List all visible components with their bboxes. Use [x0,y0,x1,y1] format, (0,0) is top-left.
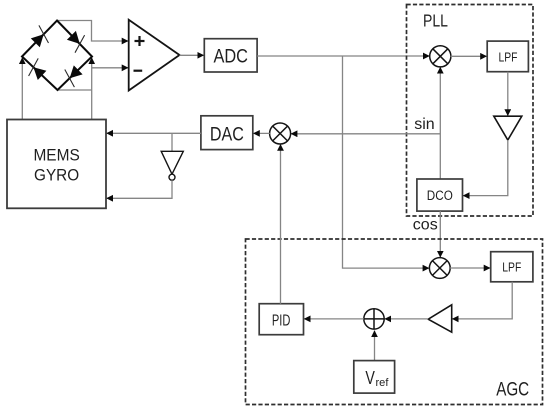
inverter bubble [169,174,175,180]
wire bottom vertex to right [58,89,92,91]
svg-text:cos: cos [413,217,438,234]
svg-text:PID: PID [272,313,291,330]
LPF block PLL [487,41,528,72]
wire DAC to MEMS GYRO top input [107,132,201,134]
multiplier DAC [270,123,291,144]
wire PID up to DAC multiplier [280,144,282,303]
svg-text:V: V [365,368,375,388]
bridge arrow bottom-left [29,58,47,80]
svg-text:ref: ref [376,377,390,389]
wire adder to PID [304,318,364,320]
MEMS GYRO block [7,120,106,209]
wire inverter to MEMS GYRO bottom input [107,180,173,198]
wire AGC LPF down to buffer [452,282,512,319]
wire DAC multiplier output to DAC [253,132,269,134]
wire AGC multiplier to LPF [450,267,490,269]
wire right vertex branch to op-amp minus input [92,67,129,69]
svg-text:MEMS: MEMS [33,146,79,164]
wire op-amp output to ADC [180,54,204,56]
MEMS capacitive bridge diamond [22,21,92,91]
svg-text:LPF: LPF [499,50,518,65]
buffer triangle AGC (points left) [428,305,452,332]
DCO block [417,179,463,211]
op-amp minus sign [134,70,143,72]
svg-text:sin: sin [414,116,434,133]
wire buffer to DCO [463,140,508,196]
PID block [259,304,303,335]
svg-text:DCO: DCO [427,188,453,203]
svg-text:LPF: LPF [502,260,521,275]
svg-text:GYRO: GYRO [34,167,79,185]
wire AGC buffer to adder [385,318,429,320]
wire top vertex to op-amp plus input [57,21,128,42]
svg-text:PLL: PLL [423,11,448,31]
multiplier PLL [430,46,451,67]
op-amp plus sign [135,36,145,46]
AGC dashed box [246,239,543,405]
op-amp differential amplifier [129,20,180,91]
wire PLL multiplier to LPF [451,55,487,57]
wire left vertex down to MEMS GYRO [21,58,23,120]
buffer triangle PLL [494,116,522,140]
wire Vref up to adder [374,331,376,361]
wire ADC output to PLL multiplier [257,55,429,57]
wire LPF down to buffer [507,72,509,116]
LPF block AGC [491,252,533,282]
sin wire from DCO line to DAC multiplier [291,133,440,135]
wire junction down to inverter [171,133,173,151]
bridge arrow top-right [67,31,85,53]
wire right vertex down to MEMS GYRO [91,58,93,120]
PLL dashed box [407,5,534,217]
multiplier AGC [429,258,450,279]
wire DCO up to PLL multiplier [439,67,441,179]
bridge arrow top-left [31,25,49,47]
DAC block [201,116,253,150]
svg-text:DAC: DAC [210,124,244,146]
bridge arrow bottom-right [65,65,83,87]
svg-text:ADC: ADC [213,45,248,67]
inverter [161,151,183,174]
ADC block [204,39,257,72]
Vref block [354,361,395,394]
wire DCO down to AGC multiplier (cos) [439,211,441,257]
adder [364,309,384,329]
svg-text:AGC: AGC [496,379,529,400]
wire ADC branch down to AGC multiplier [343,56,430,268]
